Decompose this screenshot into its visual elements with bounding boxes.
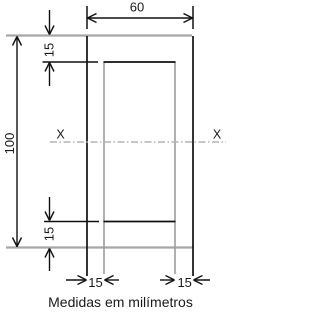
svg-text:60: 60 <box>130 0 144 14</box>
svg-text:15: 15 <box>42 43 57 57</box>
inner hole right edge (gray, extended below) <box>174 62 176 274</box>
dim 15 bottom-left arrow right-pointing <box>66 276 87 285</box>
outer plate top edge (gray) <box>6 34 192 36</box>
svg-text:X: X <box>56 128 65 142</box>
svg-text:Medidas em milímetros: Medidas em milímetros <box>48 294 193 310</box>
outer plate right edge <box>192 36 194 276</box>
dim 15 top upper arrow (pointing down) <box>45 10 54 35</box>
svg-text:15: 15 <box>42 227 57 241</box>
outer plate left edge <box>86 36 88 276</box>
dim 60 extension tick right <box>192 6 194 29</box>
dim 15 bottom extension line <box>44 221 99 223</box>
centerline X-X (dashed) <box>50 141 226 143</box>
dim 60 arrow left <box>88 14 97 23</box>
dim 15 top extension line <box>43 61 99 63</box>
dim 15 bottom upper arrow (pointing down) <box>45 197 54 221</box>
dim 60 arrow right <box>184 14 193 23</box>
dim 15 bottom-right arrow left-pointing <box>194 276 211 285</box>
inner hole bottom edge <box>104 221 176 223</box>
inner hole top edge <box>104 61 176 63</box>
svg-text:15: 15 <box>88 275 102 290</box>
svg-text:100: 100 <box>2 133 17 155</box>
svg-text:15: 15 <box>177 275 191 290</box>
svg-text:X: X <box>213 128 222 142</box>
outer plate bottom edge (gray) <box>6 246 193 248</box>
dim 15 bottom-left arrow left-pointing <box>105 276 120 285</box>
dim 100 arrow up <box>13 37 22 46</box>
dim 60 extension tick left <box>86 6 88 29</box>
dim 60 line <box>88 17 192 19</box>
dim 100 arrow down <box>13 238 22 247</box>
dim 100 line <box>16 37 18 248</box>
dim 15 top lower arrow (pointing up) <box>45 63 54 87</box>
dim 15 bottom lower arrow (pointing up) <box>45 249 54 272</box>
dim 15 bottom-right arrow right-pointing <box>160 276 175 285</box>
inner hole left edge (gray, extended below) <box>103 62 105 274</box>
